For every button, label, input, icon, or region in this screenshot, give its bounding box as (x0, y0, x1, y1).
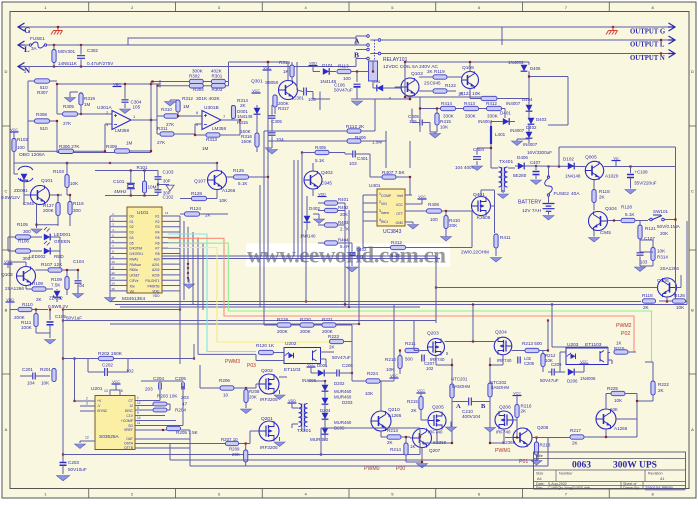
svg-text:10K: 10K (610, 407, 618, 412)
svg-text:D0: D0 (130, 215, 134, 219)
capacitor 104 mid (269, 133, 276, 135)
svg-text:CIFVs: CIFVs (130, 279, 139, 283)
svg-text:R113: R113 (338, 64, 349, 69)
battery BATTERY (543, 204, 555, 212)
svg-text:R225: R225 (607, 386, 618, 391)
wire Q103 emitter to ground rail (409, 96, 411, 99)
svg-text:R306 27K: R306 27K (59, 144, 80, 149)
resistor R205 (167, 426, 181, 430)
svg-text:S8050: S8050 (265, 80, 279, 85)
varistor MOV301 (53, 44, 55, 46)
svg-text:50V47uF: 50V47uF (540, 378, 559, 383)
resistor R310 (164, 114, 178, 118)
wire right of U101 to SG3525 rails (198, 353, 256, 355)
svg-text:2K: 2K (521, 409, 528, 414)
wire double rail y256 (162, 255, 436, 257)
svg-text:PWM2: PWM2 (616, 323, 632, 329)
svg-text:2K: 2K (572, 441, 579, 446)
svg-text:300: 300 (73, 208, 81, 213)
led LED001 (44, 234, 50, 241)
svg-text:Size: Size (536, 472, 543, 476)
svg-text:R118: R118 (642, 293, 653, 298)
resistor R311 (160, 132, 174, 136)
svg-text:10K: 10K (70, 181, 79, 186)
red earth symbol on G rail (51, 27, 63, 35)
svg-text:PWM0: PWM0 (364, 466, 380, 472)
net cyan PWM3 (168, 234, 256, 352)
wire op-amp block U301B (156, 86, 158, 134)
svg-text:1K: 1K (283, 69, 290, 74)
resistor R116 (68, 202, 72, 215)
resistor R212 (541, 354, 545, 367)
svg-text:R205 7.5K: R205 7.5K (176, 430, 199, 435)
svg-text:Q402: Q402 (321, 170, 333, 176)
svg-text:K2608: K2608 (477, 215, 491, 220)
wire right-mid verticals (547, 321, 549, 351)
diode D205 (322, 428, 329, 434)
svg-text:2K: 2K (387, 440, 394, 445)
VCC Q301 (252, 92, 261, 94)
svg-text:VCC: VCC (396, 203, 404, 207)
svg-text:102: 102 (126, 369, 134, 374)
svg-text:Rl0Ila: Rl0Ila (130, 268, 138, 272)
svg-text:/SYNC: /SYNC (97, 409, 108, 413)
power flag VCC R102 (10, 131, 19, 133)
svg-text:50V47uF: 50V47uF (334, 88, 353, 93)
svg-text:VDD: VDD (6, 298, 14, 302)
svg-text:R314: R314 (657, 255, 668, 260)
resistor R402 (325, 208, 338, 212)
svg-text:C101: C101 (113, 179, 125, 185)
title block frame (534, 452, 686, 489)
svg-text:P1LGHT1: P1LGHT1 (145, 279, 159, 283)
net green net (168, 243, 652, 362)
wire bottom long rail (63, 454, 420, 456)
svg-text:R107 12K: R107 12K (41, 262, 63, 268)
wire diode column (324, 381, 326, 385)
svg-text:1M: 1M (84, 102, 91, 107)
svg-text:11: 11 (137, 421, 141, 425)
svg-text:VU: VU (614, 156, 619, 160)
svg-text:A201: A201 (152, 263, 160, 267)
svg-text:2K: 2K (205, 213, 212, 218)
wire left bus (28, 80, 35, 82)
node N input (18, 63, 25, 71)
ground TX401 (502, 190, 504, 193)
svg-text:C107: C107 (644, 236, 655, 241)
svg-text:R317: R317 (278, 106, 289, 111)
svg-text:C301: C301 (293, 96, 304, 101)
svg-text:C104: C104 (73, 259, 84, 264)
svg-text:R124: R124 (190, 206, 201, 211)
svg-text:ET1103: ET1103 (284, 367, 301, 373)
resistor R410 (444, 216, 448, 229)
ground under C305 (267, 150, 278, 155)
resistor R215 (419, 397, 423, 410)
thermistor NTC201 (450, 384, 454, 398)
svg-text:4MHz: 4MHz (114, 189, 127, 195)
wire charger top loop (559, 146, 676, 148)
svg-text:10K: 10K (365, 391, 374, 396)
svg-text:103: 103 (640, 260, 648, 265)
svg-text:IN4007: IN4007 (506, 101, 521, 106)
svg-text:3A: 3A (31, 46, 38, 51)
svg-text:R208: R208 (249, 389, 260, 394)
svg-text:Q107: Q107 (194, 179, 206, 185)
svg-text:5.1K: 5.1K (315, 158, 325, 163)
svg-text:VDD: VDD (153, 294, 160, 298)
svg-text:B: B (691, 308, 694, 313)
svg-text:1M: 1M (126, 141, 133, 146)
svg-text:203: 203 (145, 387, 153, 392)
svg-text:R1: R1 (155, 215, 159, 219)
power flag Q210 (390, 377, 399, 379)
svg-text:Q208: Q208 (537, 425, 549, 430)
net red P-net (168, 238, 634, 351)
svg-text:5A5OHM: 5A5OHM (491, 385, 509, 390)
svg-text:A: A (691, 427, 694, 432)
resistor R401 (325, 201, 338, 205)
capacitor C305 (269, 116, 276, 118)
VCC at UC3843 (418, 198, 427, 200)
svg-text:GND: GND (395, 221, 403, 225)
svg-text:D101: D101 (322, 63, 333, 68)
resistor R309 (115, 149, 130, 153)
svg-text:Q005: Q005 (585, 155, 597, 161)
wire left vertical to bottom (62, 310, 64, 455)
svg-text:OTTB: OTTB (124, 446, 134, 450)
svg-text:P03: P03 (247, 363, 256, 369)
svg-text:R2: R2 (155, 220, 159, 224)
wire Q107 collector (216, 163, 218, 171)
svg-text:D403: D403 (536, 117, 547, 122)
resistor R111 (34, 314, 38, 327)
svg-text:105: 105 (133, 105, 141, 110)
svg-text:10K: 10K (614, 398, 623, 403)
wire top mid verticals (229, 61, 289, 63)
svg-text:OTT: OTT (396, 212, 403, 216)
svg-text:R223: R223 (328, 334, 339, 339)
svg-text:R214: R214 (390, 447, 401, 452)
svg-text:100: 100 (17, 145, 25, 150)
svg-text:+V: +V (97, 399, 102, 403)
svg-text:400V104: 400V104 (462, 414, 481, 419)
svg-text:R8: R8 (155, 252, 159, 256)
wire sg3525 outputs to right (169, 444, 171, 461)
svg-text:D: D (5, 69, 8, 74)
svg-text:R128: R128 (621, 205, 632, 210)
wire U101 right pin dots (187, 263, 189, 265)
resistor R415 (435, 113, 439, 125)
svg-text:50V47uF: 50V47uF (332, 355, 351, 360)
svg-text:MUR460: MUR460 (334, 395, 352, 400)
svg-text:D/K3TIK1: D/K3TIK1 (130, 252, 144, 256)
svg-text:VDD: VDD (309, 61, 317, 65)
red earth symbol at output (606, 27, 618, 35)
junction dots extra (435, 255, 437, 257)
wire OUTPUT G run (612, 26, 614, 28)
capacitor C106 (356, 70, 358, 72)
svg-text:R402: R402 (338, 205, 349, 210)
svg-text:Isens: Isens (381, 211, 389, 215)
resistor R208 (244, 390, 248, 403)
wire op-amp block U301A (57, 83, 151, 85)
ic U101 M34513E4 (127, 207, 162, 293)
svg-text:50V/0.1MA: 50V/0.1MA (657, 224, 681, 229)
capacitor C401 (353, 151, 355, 158)
svg-text:PWM1: PWM1 (495, 448, 511, 454)
svg-text:Q204: Q204 (495, 330, 507, 336)
svg-text:2K: 2K (643, 305, 650, 310)
svg-text:R210: R210 (385, 357, 396, 362)
svg-text:R301: R301 (212, 73, 223, 78)
svg-text:R109: R109 (51, 277, 62, 282)
svg-text:Q301: Q301 (251, 79, 263, 85)
svg-text:R213 500: R213 500 (522, 341, 542, 346)
wire H-bridge top rail (351, 342, 353, 374)
svg-text:5.1K: 5.1K (238, 181, 248, 186)
svg-text:LM358: LM358 (212, 126, 226, 131)
svg-text:15: 15 (111, 287, 115, 291)
svg-text:C103: C103 (163, 170, 174, 175)
svg-text:IRF740: IRF740 (496, 430, 511, 435)
svg-text:D2: D2 (130, 225, 134, 229)
wire UC3843 pins (363, 194, 377, 196)
resistor R411 (494, 234, 498, 248)
resistor R127 (56, 203, 60, 216)
resistor R404 (325, 241, 338, 245)
svg-text:R106: R106 (18, 239, 29, 244)
svg-text:R413: R413 (464, 101, 475, 106)
svg-text:R403: R403 (338, 220, 349, 225)
svg-text:200K: 200K (43, 208, 55, 213)
svg-text:Drawn By:: Drawn By: (623, 486, 640, 490)
svg-text:OAT: OAT (126, 437, 133, 441)
ground under diode chain (517, 138, 529, 140)
capacitor C402 (345, 242, 352, 244)
svg-text:R412: R412 (486, 101, 497, 106)
svg-text:A1020: A1020 (605, 174, 619, 179)
diode across relay coil (377, 85, 383, 92)
svg-text:40A: 40A (571, 191, 580, 197)
svg-text:200K: 200K (300, 329, 312, 334)
svg-text:DISC: DISC (125, 409, 134, 413)
svg-text:300: 300 (23, 229, 31, 234)
svg-text:A: A (456, 403, 461, 410)
resistor R218 (534, 442, 538, 455)
svg-text:OSTA: OSTA (124, 442, 134, 446)
svg-text:C305: C305 (271, 119, 282, 124)
svg-text:R101: R101 (137, 165, 148, 170)
wire PWM red vertical right (605, 429, 607, 437)
svg-text:TX201: TX201 (297, 428, 311, 434)
svg-text:A4: A4 (537, 477, 542, 481)
svg-text:R415: R415 (440, 119, 451, 124)
wire long rails below U101 (110, 301, 641, 303)
svg-text:R401: R401 (338, 197, 349, 202)
svg-text:301K 402K: 301K 402K (196, 96, 221, 102)
svg-text:MUR460: MUR460 (334, 420, 352, 425)
svg-text:IRF3205: IRF3205 (260, 397, 278, 402)
diode D404 (526, 105, 533, 111)
svg-text:510: 510 (40, 126, 48, 131)
svg-text:D001: D001 (317, 363, 328, 368)
ground C104 (73, 294, 84, 299)
svg-text:D206: D206 (567, 379, 578, 384)
transistor Q108 (462, 72, 479, 89)
svg-text:20K: 20K (232, 452, 240, 457)
wire relay supply (351, 71, 368, 73)
svg-text:R108: R108 (32, 281, 43, 286)
svg-text:LRSET: LRSET (130, 274, 140, 278)
svg-text:200K: 200K (277, 329, 289, 334)
svg-text:14N511K: 14N511K (58, 61, 78, 66)
svg-text:A20b: A20b (152, 274, 160, 278)
svg-text:ZD002: ZD002 (49, 296, 63, 301)
svg-text:D405: D405 (530, 66, 541, 71)
svg-text:C302: C302 (87, 48, 98, 53)
diode D402b (304, 216, 311, 222)
svg-text:1K: 1K (410, 444, 415, 449)
svg-text:R123 10K: R123 10K (460, 91, 481, 96)
svg-text:D102: D102 (563, 157, 574, 162)
svg-text:16V/3300uF: 16V/3300uF (527, 150, 552, 155)
svg-text:Q108: Q108 (462, 65, 474, 71)
svg-text:A1266: A1266 (614, 426, 628, 431)
svg-text:U202: U202 (285, 341, 297, 347)
svg-text:11: 11 (111, 266, 114, 270)
resistor R403 (325, 223, 338, 227)
svg-text:C: C (5, 188, 8, 193)
svg-text:P02: P02 (621, 331, 630, 337)
diode D203 (322, 398, 329, 404)
resistor R307 (35, 79, 50, 83)
wires H-bridge (413, 321, 415, 351)
svg-text:5.1K: 5.1K (625, 212, 635, 217)
svg-text:5E280: 5E280 (513, 173, 527, 178)
svg-text:1.5M: 1.5M (372, 140, 382, 145)
svg-text:D3: D3 (130, 231, 134, 235)
svg-text:R412: R412 (391, 240, 402, 245)
svg-text:VIN: VIN (381, 202, 387, 206)
svg-text:D203: D203 (342, 400, 353, 405)
svg-text:VCC: VCC (263, 66, 271, 70)
svg-text:S03525A: S03525A (99, 434, 120, 440)
svg-text:TX401: TX401 (499, 159, 513, 165)
svg-text:R206: R206 (219, 378, 230, 383)
diode D001b (307, 366, 316, 368)
svg-text:D/K3TIM: D/K3TIM (130, 247, 143, 251)
svg-text:50V1uF: 50V1uF (66, 316, 82, 321)
svg-text:R102: R102 (17, 137, 28, 142)
svg-text:C1V: C1V (126, 414, 133, 418)
svg-text:D202: D202 (334, 381, 345, 386)
zener ZD001 (21, 174, 28, 182)
wire top-left L to relay riser (128, 38, 356, 45)
U101 left pin wires (110, 215, 127, 217)
wire right columns down from relay area (374, 99, 376, 131)
svg-text:R119: R119 (434, 69, 445, 74)
svg-text:A202: A202 (152, 268, 160, 272)
svg-text:COMP: COMP (381, 194, 392, 198)
wire 330K row (405, 96, 481, 98)
svg-text:10K: 10K (657, 249, 666, 254)
svg-text:FUSE2: FUSE2 (554, 191, 570, 197)
svg-text:27K: 27K (63, 121, 72, 126)
svg-text:SW101: SW101 (653, 209, 669, 214)
svg-text:10K: 10K (219, 198, 228, 203)
svg-text:R4: R4 (155, 231, 159, 235)
VCC U201 (112, 383, 121, 385)
svg-text:2K: 2K (240, 103, 247, 108)
capacitor C304 and VCC (113, 86, 122, 88)
svg-text:L401: L401 (495, 132, 506, 137)
svg-text:RlVA1: RlVA1 (130, 258, 139, 262)
svg-text:R6: R6 (155, 241, 159, 245)
svg-text:R224: R224 (367, 371, 378, 376)
wire right side vertical (675, 147, 677, 301)
svg-text:C407: C407 (530, 160, 541, 165)
svg-text:R5: R5 (155, 236, 159, 240)
svg-text:R213: R213 (387, 428, 398, 433)
svg-text:P00: P00 (396, 466, 405, 472)
svg-text:Q203: Q203 (427, 331, 439, 337)
svg-text:NTC201: NTC201 (451, 377, 468, 382)
svg-text:12: 12 (111, 271, 115, 275)
svg-text:100K: 100K (21, 325, 33, 330)
wire battery rail (533, 165, 585, 168)
svg-text:VDD: VDD (318, 192, 326, 196)
svg-text:12V 7AH: 12V 7AH (522, 208, 542, 214)
capacitor L02 C208 (518, 357, 520, 364)
U201 left pin wires (75, 400, 96, 402)
svg-text:C402: C402 (356, 247, 367, 252)
svg-text:LED001: LED001 (54, 232, 71, 237)
svg-text:1: 1 (137, 396, 139, 400)
svg-text:VCC: VCC (10, 128, 18, 132)
svg-text:D406: D406 (517, 155, 528, 160)
wire mid column x330 (321, 98, 330, 100)
svg-text:IRF3205: IRF3205 (260, 445, 278, 450)
svg-text:10K: 10K (41, 381, 50, 386)
svg-text:9: 9 (137, 411, 139, 415)
ground U101 right mid (188, 279, 190, 283)
svg-text:D4: D4 (130, 236, 134, 240)
ground U101 left (109, 216, 111, 296)
svg-text:R222: R222 (658, 382, 669, 387)
capacitor C301 (304, 88, 307, 96)
wire center long verticals (358, 248, 360, 325)
watermark band (246, 244, 450, 267)
ground R410 (441, 237, 452, 242)
svg-text:10K: 10K (440, 125, 449, 130)
fuse FUSE2 (547, 176, 549, 178)
svg-text:10: 10 (111, 260, 115, 264)
svg-text:C205: C205 (175, 376, 186, 381)
resistor R210 (398, 356, 402, 369)
svg-text:C201: C201 (22, 367, 33, 372)
svg-text:Q104: Q104 (605, 206, 617, 212)
svg-text:102: 102 (426, 366, 434, 371)
svg-text:2K: 2K (329, 345, 336, 350)
svg-text:R110: R110 (22, 302, 33, 307)
ground Q402 cluster (312, 195, 314, 197)
net yellow net (168, 248, 330, 343)
svg-text:R404: R404 (338, 238, 349, 243)
svg-text:R209: R209 (229, 447, 240, 452)
svg-text:C401: C401 (357, 156, 368, 161)
svg-text:VCC: VCC (513, 391, 521, 395)
